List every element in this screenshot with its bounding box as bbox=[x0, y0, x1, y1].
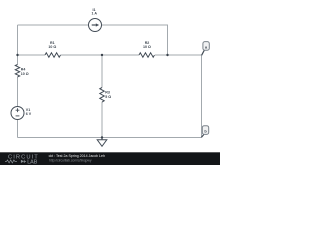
footer logo schematic doodle (resistor + diode) bbox=[5, 160, 17, 163]
junction: I1 branch / middle row bbox=[166, 54, 168, 56]
svg-text:1 A: 1 A bbox=[91, 12, 97, 16]
junction: center vertical / middle row bbox=[101, 54, 103, 56]
resistor R4 (10 Ohm, vertical, left rail) bbox=[15, 65, 19, 77]
resistor R1 (10 Ohm, horizontal) bbox=[45, 53, 60, 57]
voltage source V1 (6 V) circle bbox=[11, 107, 24, 120]
ground stub bbox=[101, 138, 103, 141]
footer bar bbox=[0, 152, 220, 165]
wire: middle row, R1 to R2 through center node bbox=[61, 54, 140, 56]
node flag a box bbox=[203, 42, 209, 51]
wire: left rail top segment (corner down to R4 top) bbox=[17, 25, 19, 65]
node flag a tail bbox=[202, 50, 205, 55]
svg-text:10 Ω: 10 Ω bbox=[143, 45, 151, 49]
svg-text:5 Ω: 5 Ω bbox=[105, 95, 111, 99]
svg-text:R4: R4 bbox=[21, 68, 26, 72]
svg-text:ckt : Test 2a Spring 2014 Jaco: ckt : Test 2a Spring 2014 Jacob Leh bbox=[49, 154, 105, 158]
resistor R3 (5 Ohm, vertical, center) bbox=[100, 88, 104, 103]
junction: center vertical / bottom rail (ground node) bbox=[101, 136, 103, 138]
wire: left rail below V1 to bottom rail bbox=[17, 120, 19, 138]
svg-text:6 V: 6 V bbox=[26, 112, 32, 116]
wire: center vertical from row node to R3 bbox=[101, 55, 103, 88]
wire: bottom rail bbox=[18, 137, 202, 139]
current source I1 arrow bbox=[92, 24, 96, 26]
node flag b tail bbox=[201, 135, 203, 138]
svg-text:http://circuitlab.com/c/9kqpwy: http://circuitlab.com/c/9kqpwy bbox=[49, 159, 92, 163]
wire: top-left horizontal from left rail to I1 bbox=[18, 24, 89, 26]
wire: left rail between R4 and V1 bbox=[17, 77, 19, 107]
wire: center vertical from R3 to bottom rail bbox=[101, 102, 103, 138]
svg-text:R3: R3 bbox=[105, 91, 110, 95]
node flag b box bbox=[202, 126, 208, 135]
svg-text:LAB: LAB bbox=[27, 159, 38, 165]
current source I1 (1 A) circle bbox=[89, 19, 102, 32]
svg-text:R1: R1 bbox=[50, 41, 55, 45]
svg-text:R2: R2 bbox=[145, 41, 150, 45]
wire: top-right horizontal from I1 to corner, down to middle row bbox=[102, 25, 168, 55]
svg-text:V1: V1 bbox=[26, 108, 30, 112]
svg-text:10 Ω: 10 Ω bbox=[21, 72, 29, 76]
ground symbol (open triangle) bbox=[97, 140, 107, 147]
svg-text:10 Ω: 10 Ω bbox=[48, 45, 56, 49]
wire: middle row, R2 to right corner and down right rail bbox=[155, 55, 202, 138]
wire: middle row, left node to R1 bbox=[18, 54, 46, 56]
junction: left rail / middle row bbox=[16, 54, 18, 56]
resistor R2 (10 Ohm, horizontal) bbox=[139, 53, 154, 57]
V1 plus sign bbox=[16, 108, 20, 112]
V1 minus sign bbox=[16, 115, 20, 117]
